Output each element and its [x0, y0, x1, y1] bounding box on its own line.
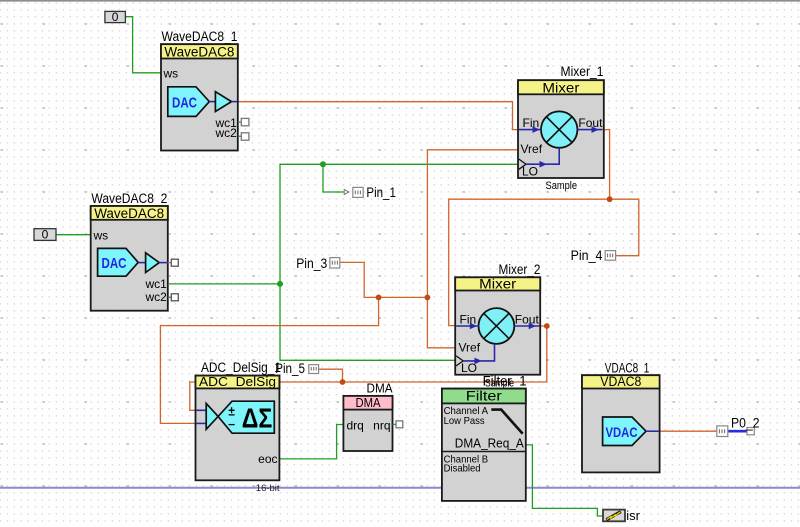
- wire: LO blue path: [526, 148, 559, 164]
- mixer circle: [479, 308, 515, 344]
- wire: internal blue inputs: [197, 409, 207, 411]
- component VDAC8_1: [582, 361, 660, 473]
- wire: Fout blue arrow: [577, 129, 602, 131]
- logic low 0 (left): [34, 228, 56, 242]
- wire: green LO bus: [280, 164, 519, 360]
- component Mixer_1: [518, 64, 604, 192]
- component ADC_DelSig_1: [196, 360, 282, 494]
- mixer circle: [541, 111, 577, 147]
- wire: out stub orange: [168, 262, 174, 264]
- component Filter_1: [442, 373, 527, 501]
- node: orange junction Mixer_1 Fout: [607, 196, 613, 202]
- svg-text:P0_2: P0_2: [731, 416, 760, 431]
- svg-text:Filter_1: Filter_1: [483, 373, 527, 388]
- wire: Fout net to Pin_4: [610, 199, 639, 256]
- wire: nrq stub: [393, 423, 400, 425]
- wire: Pin_3 net horizontal: [340, 262, 427, 297]
- svg-text:DAC: DAC: [102, 255, 127, 272]
- svg-text:Fin: Fin: [460, 312, 477, 326]
- wire: internal blue out: [646, 430, 659, 432]
- wire: Fout blue arrow: [514, 325, 539, 327]
- pin Pin_1: [353, 185, 396, 200]
- svg-text:isr: isr: [626, 508, 640, 523]
- svg-text:ADC_DelSig: ADC_DelSig: [199, 374, 276, 389]
- terminal wc2: [241, 133, 249, 140]
- wire: Fout net to Mixer_2 Fin: [449, 199, 610, 325]
- svg-text:Vref: Vref: [521, 142, 543, 156]
- wire: branch to Mixer_1 Vref: [427, 150, 518, 298]
- svg-text:ADC_DelSig_1: ADC_DelSig_1: [201, 360, 281, 375]
- buffer triangle: [146, 253, 160, 273]
- svg-text:wc2: wc2: [144, 290, 167, 304]
- svg-text:drq: drq: [347, 419, 364, 433]
- terminal: P0_2 end square: [747, 428, 754, 435]
- svg-text:WaveDAC8: WaveDAC8: [164, 45, 234, 60]
- svg-text:Mixer: Mixer: [479, 277, 517, 292]
- wire: logic0 to WaveDAC8_2 ws: [56, 234, 92, 236]
- svg-text:ws: ws: [163, 67, 179, 81]
- LO clock triangle: [456, 356, 463, 366]
- svg-text:VDAC8: VDAC8: [600, 374, 641, 389]
- wire: WaveDAC8_2 wc1 to bus: [169, 283, 280, 285]
- svg-text:Mixer_2: Mixer_2: [499, 262, 541, 277]
- svg-text:wc1: wc1: [144, 277, 167, 291]
- svg-text:DMA_Req_A: DMA_Req_A: [455, 436, 524, 451]
- wire: Mixer_2 Fout net to ADC upper input: [190, 326, 547, 410]
- wire: internal blue link: [138, 262, 145, 264]
- VDAC pentagon: [603, 417, 646, 446]
- pin Pin_4: [571, 248, 616, 263]
- wire: internal blue out: [159, 262, 168, 264]
- svg-text:VDAC: VDAC: [606, 424, 638, 440]
- terminal wc1: [241, 118, 249, 125]
- LO clock triangle: [519, 159, 526, 169]
- svg-text:DMA: DMA: [356, 395, 381, 410]
- svg-text:DMA: DMA: [367, 381, 393, 396]
- node: green junction at LO bus / Pin_1: [320, 161, 326, 167]
- node: orange junction Pin_5 branch: [340, 379, 346, 385]
- wire: internal blue out: [232, 101, 238, 103]
- svg-text:16-bit: 16-bit: [256, 483, 280, 494]
- svg-text:Mixer: Mixer: [542, 80, 580, 95]
- wire: branch to Mixer_2 Vref: [427, 297, 455, 347]
- svg-text:Pin_5: Pin_5: [275, 361, 305, 376]
- component WaveDAC8_1: [161, 29, 249, 151]
- node: orange junction Mixer_2 Fout corner: [544, 323, 550, 329]
- component DMA_1: [343, 381, 402, 451]
- svg-text:LO: LO: [522, 164, 538, 178]
- svg-text:ws: ws: [93, 228, 109, 242]
- wire: LO blue path: [463, 344, 494, 361]
- svg-text:eoc: eoc: [258, 452, 277, 466]
- wire: internal blue link: [209, 101, 215, 103]
- pin Pin_5: [275, 361, 318, 376]
- svg-text:Filter: Filter: [466, 388, 503, 403]
- top border line: [0, 0, 800, 2]
- wire: WaveDAC8_1 out to Mixer_1 Fin: [238, 102, 519, 130]
- svg-text:Sample: Sample: [546, 180, 578, 192]
- wire: wc2 stub: [168, 296, 174, 298]
- filter response icon: [491, 410, 522, 434]
- terminal wc2: [171, 294, 178, 301]
- wire: branch to Pin_1: [323, 164, 344, 192]
- component isr: [603, 508, 641, 523]
- node: orange junction Pin_3 / ADC branch: [376, 295, 382, 301]
- wire: Fin blue arrow: [456, 325, 478, 327]
- buffer triangle: [215, 92, 231, 112]
- wire: wc2 stub: [238, 135, 245, 137]
- svg-text:Mixer_1: Mixer_1: [561, 64, 604, 79]
- svg-text:Pin_3: Pin_3: [296, 256, 327, 271]
- DAC pentagon U1a: [168, 87, 210, 117]
- svg-text:Disabled: Disabled: [444, 463, 481, 475]
- svg-text:nrq: nrq: [373, 419, 390, 433]
- logic low 0 (top): [105, 10, 126, 24]
- terminal analog out: [171, 259, 178, 266]
- svg-text:Fout: Fout: [578, 116, 603, 130]
- wire: Filter DMA_Req_A to isr: [525, 445, 603, 516]
- node: green junction at wc1 / bus: [277, 281, 283, 287]
- svg-text:Fout: Fout: [515, 312, 540, 326]
- pin Pin_3: [296, 256, 340, 271]
- svg-text:WaveDAC8_2: WaveDAC8_2: [91, 191, 167, 206]
- svg-text:Fin: Fin: [523, 116, 540, 130]
- svg-text:wc2: wc2: [214, 126, 237, 140]
- wire: VDAC8 to P0_2: [659, 430, 717, 432]
- svg-text:WaveDAC8: WaveDAC8: [94, 206, 164, 221]
- wire: wc1 stub: [238, 121, 245, 123]
- component WaveDAC8_2: [91, 191, 179, 311]
- wire: branch to ADC lower input: [160, 297, 378, 423]
- wire: Fin blue arrow: [519, 129, 541, 131]
- terminal nrq: [396, 421, 403, 428]
- buffer triangle: [206, 403, 218, 429]
- svg-text:DAC: DAC: [172, 94, 197, 111]
- svg-text:0: 0: [42, 228, 49, 242]
- wire: P0_2 blue line: [728, 430, 748, 433]
- DAC pentagon U2a: [98, 248, 139, 276]
- svg-text:Pin_1: Pin_1: [366, 185, 396, 200]
- wire: ADC eoc to DMA drq: [279, 425, 344, 459]
- wire: branch to Pin_5: [318, 369, 342, 382]
- svg-text:Pin_4: Pin_4: [571, 248, 603, 263]
- component Mixer_2: [455, 262, 540, 389]
- node: orange junction Pin_3 / Vref branch: [425, 295, 431, 301]
- wire: Mixer_1 Fout net: [603, 130, 610, 200]
- separator: [442, 451, 526, 453]
- svg-text:Low Pass: Low Pass: [444, 415, 485, 427]
- wire: logic0 to WaveDAC8_1 ws: [125, 17, 161, 73]
- svg-text:Vref: Vref: [459, 341, 481, 355]
- pin P0_2: [717, 416, 760, 437]
- svg-text:0: 0: [112, 10, 119, 24]
- delta sigma pentagon: [218, 401, 274, 433]
- svg-text:ΔΣ: ΔΣ: [242, 402, 272, 433]
- page boundary line: [0, 487, 800, 489]
- svg-text:WaveDAC8_1: WaveDAC8_1: [162, 29, 238, 44]
